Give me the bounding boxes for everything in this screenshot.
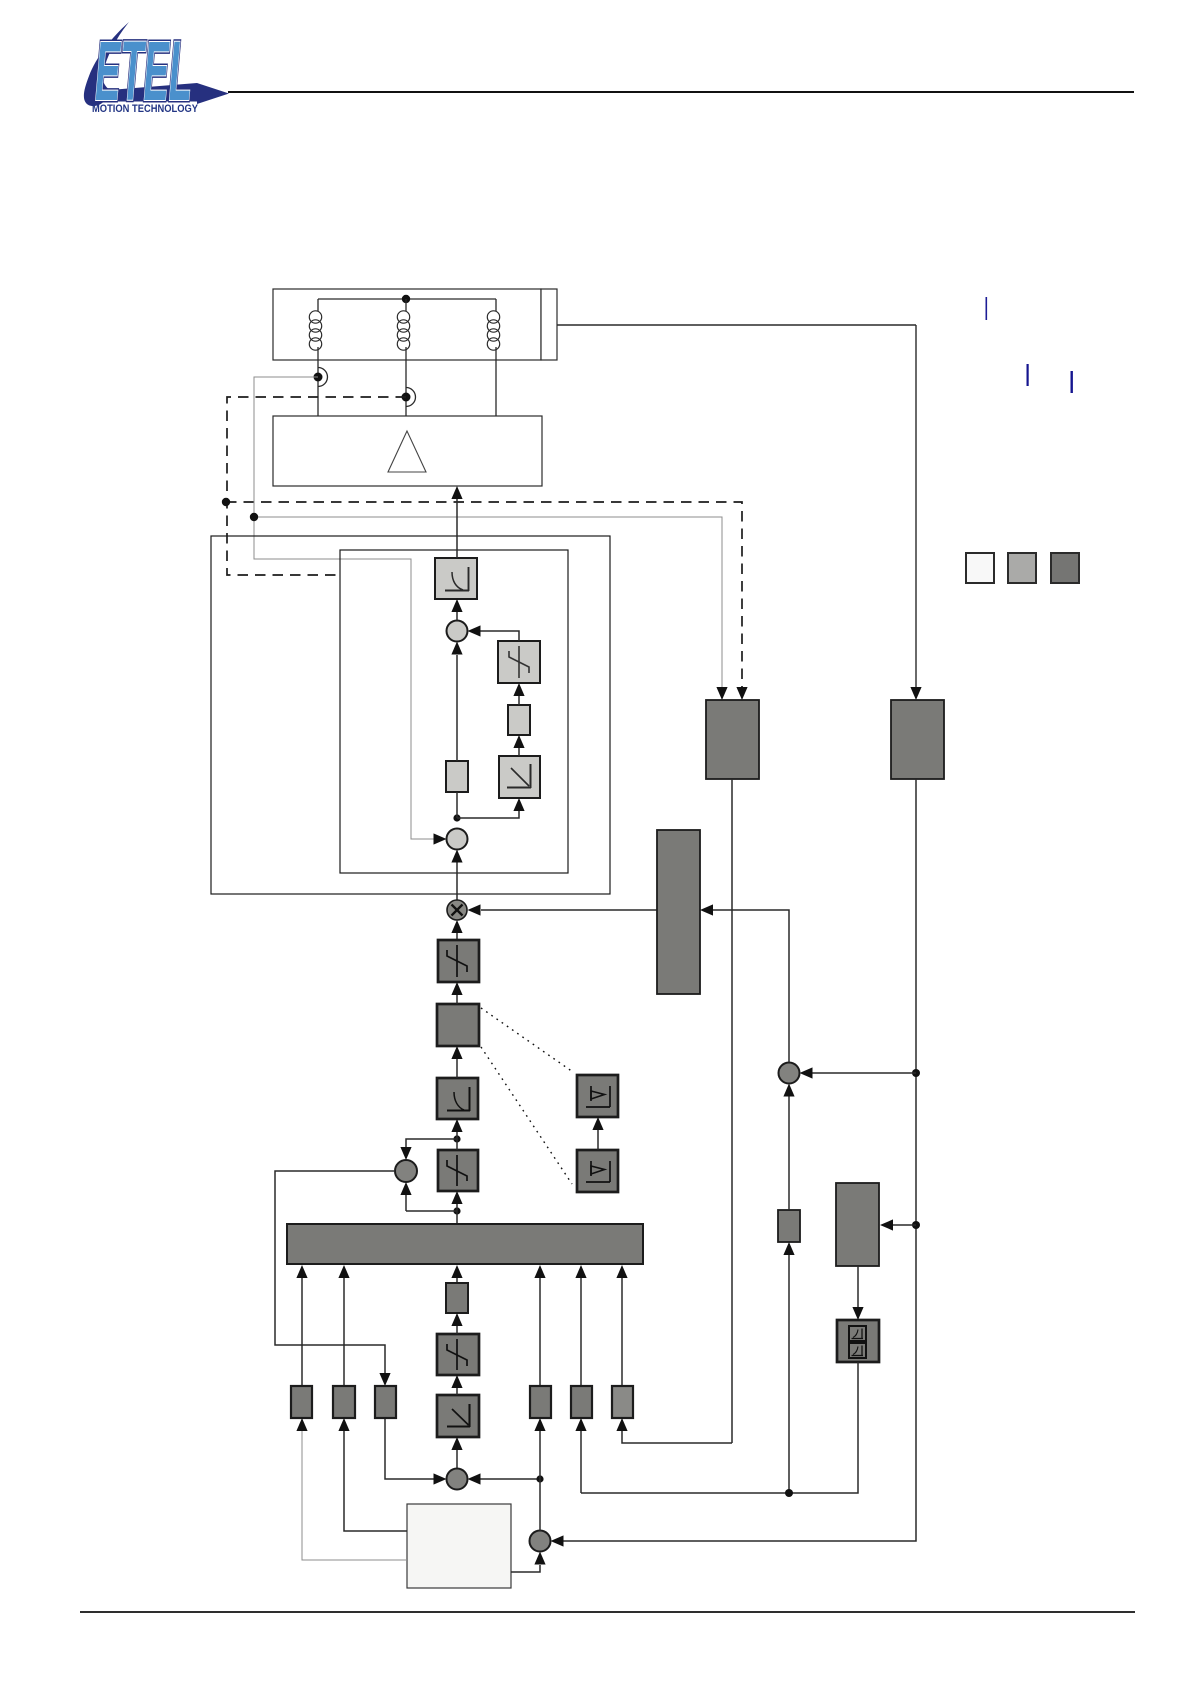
svg-text:MOTION TECHNOLOGY: MOTION TECHNOLOGY	[92, 103, 198, 115]
